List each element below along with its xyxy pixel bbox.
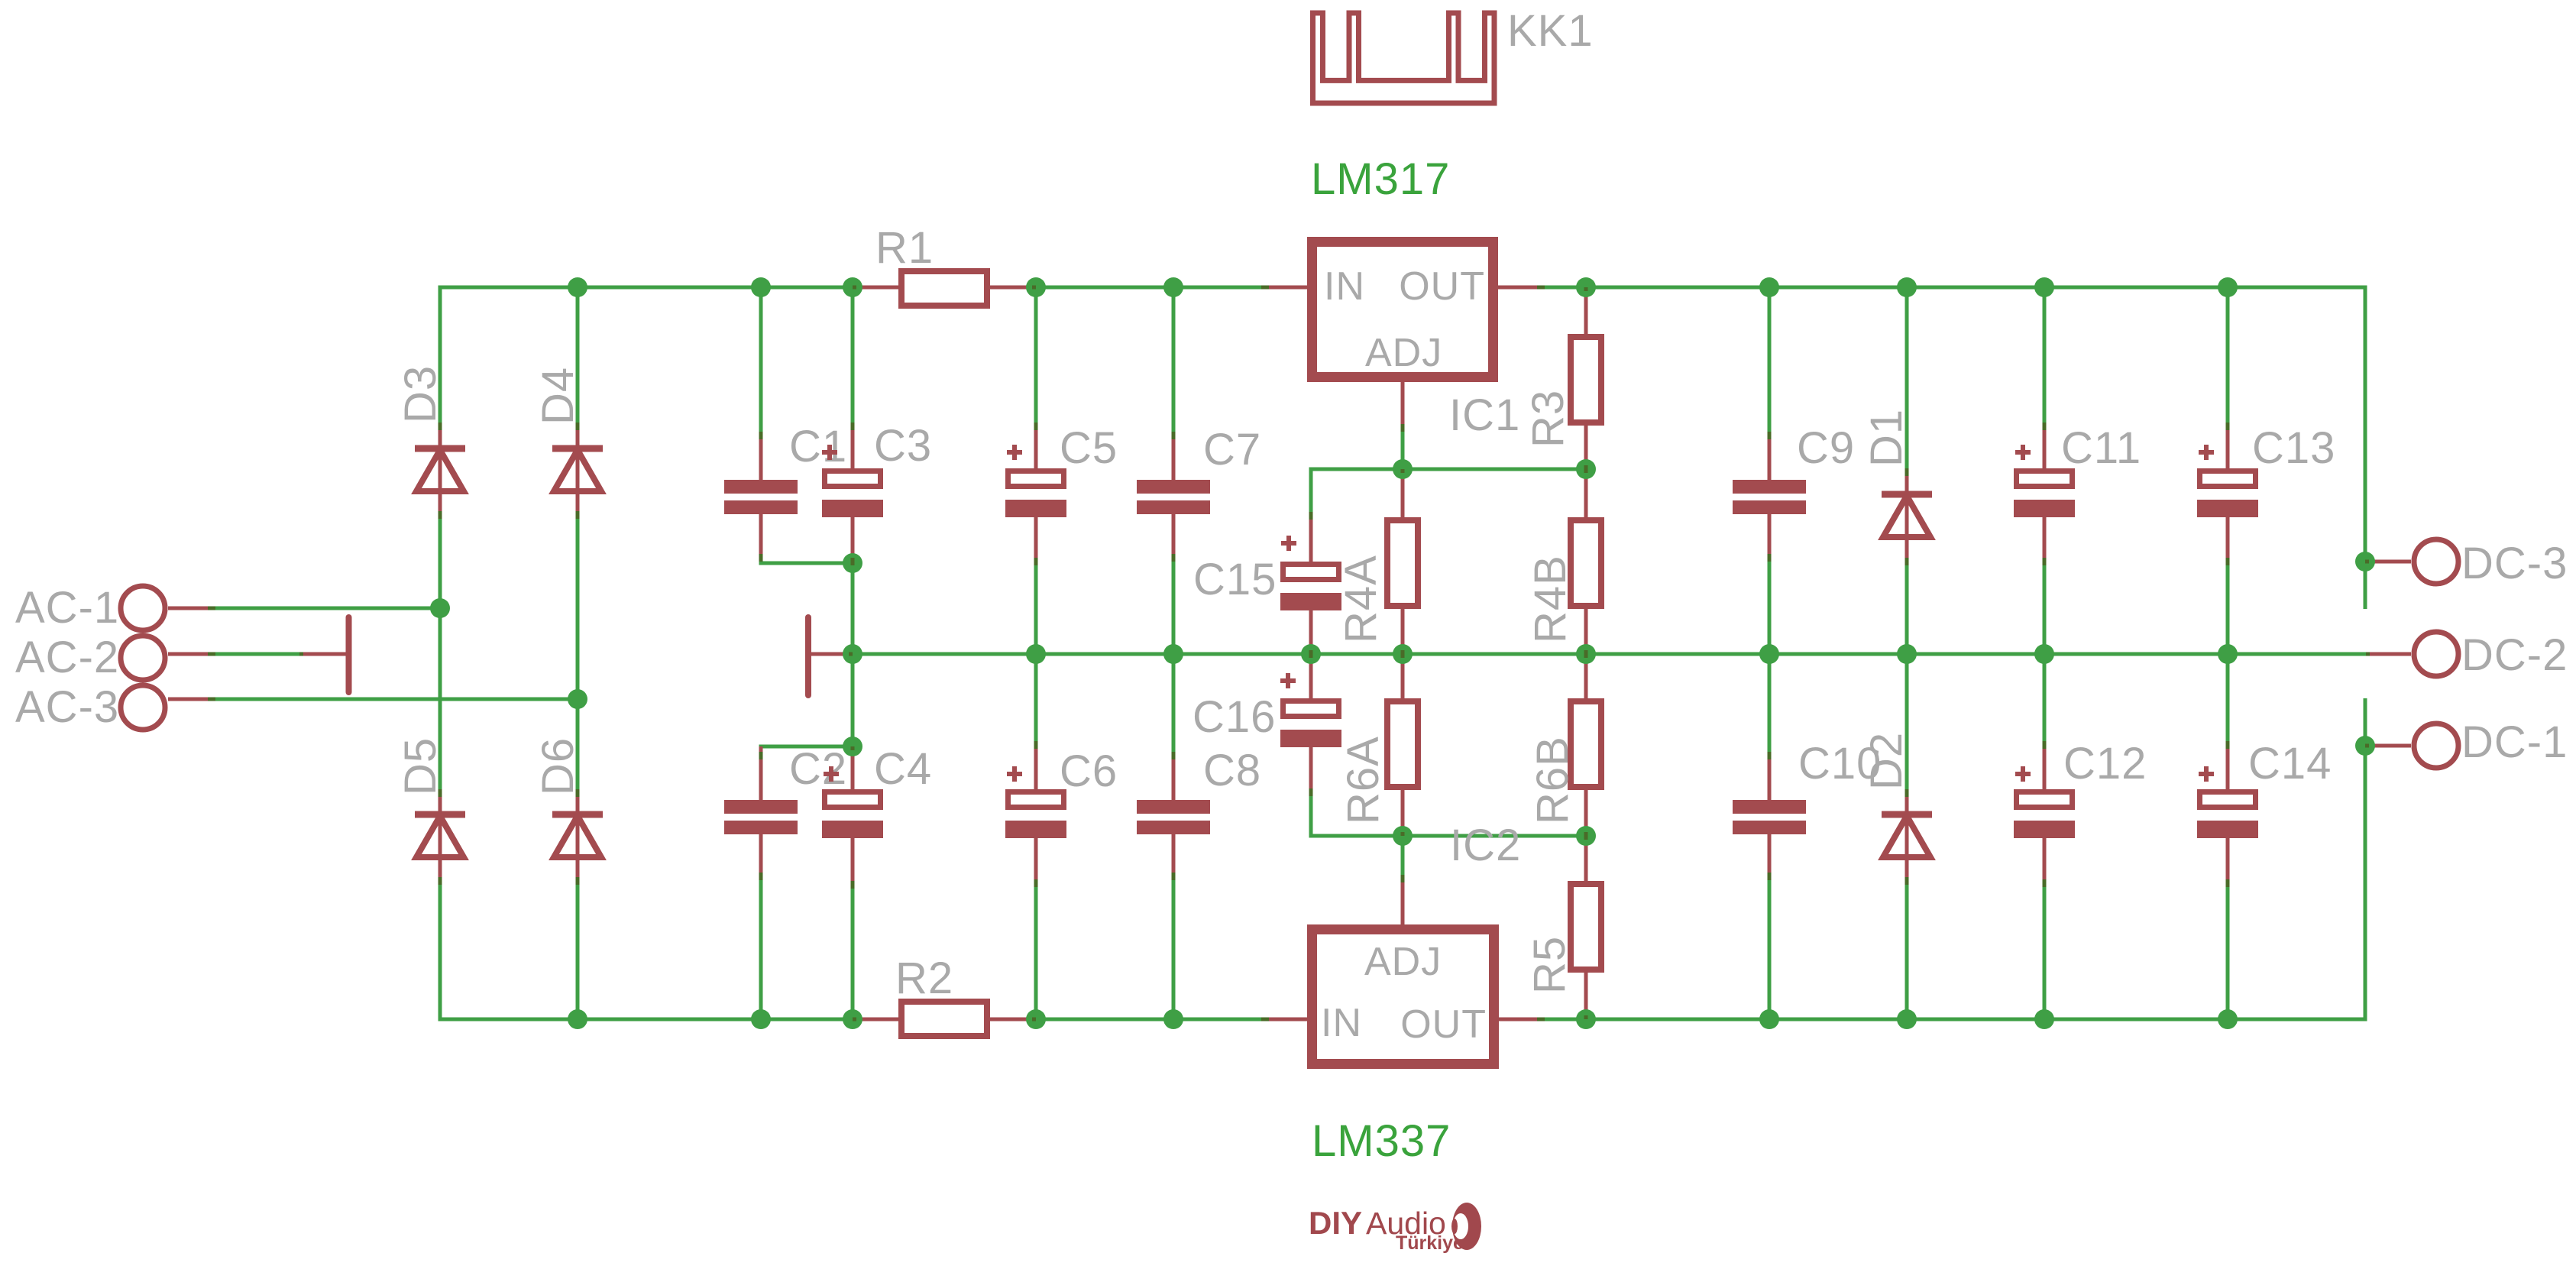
capacitor C1 bbox=[759, 435, 763, 480]
svg-text:C15: C15 bbox=[1193, 555, 1277, 604]
svg-text:AC-3: AC-3 bbox=[15, 682, 119, 732]
svg-text:IN: IN bbox=[1324, 264, 1365, 309]
wire C6 bottom bbox=[1034, 885, 1038, 1019]
svg-text:R4B: R4B bbox=[1526, 555, 1575, 643]
wire C1 top bbox=[759, 287, 763, 435]
pin end bar center rail bbox=[805, 617, 811, 695]
svg-text:C5: C5 bbox=[1060, 423, 1118, 473]
wire C8 bottom bbox=[1172, 876, 1176, 1019]
wire D2 anode bbox=[1905, 881, 1909, 1019]
wire D1 anode bbox=[1905, 562, 1909, 654]
connector pin AC-2 bbox=[121, 636, 165, 680]
connector pin AC-3 bbox=[121, 685, 165, 730]
wire C2 bottom bbox=[759, 876, 763, 1019]
wire C2 top joining link bbox=[761, 746, 853, 748]
svg-text:C10: C10 bbox=[1798, 739, 1882, 788]
wire C7 bottom bbox=[1172, 556, 1176, 654]
wire AC-2 net bbox=[212, 652, 303, 656]
resistor R1 bbox=[853, 286, 898, 290]
regulator IC2 LM337 bbox=[1265, 1018, 1308, 1022]
svg-text:C4: C4 bbox=[874, 744, 932, 794]
wire C13 top bbox=[2226, 287, 2230, 426]
svg-text:C7: C7 bbox=[1203, 425, 1261, 474]
wire C5 bottom bbox=[1034, 562, 1038, 654]
resistor R6A bbox=[1401, 654, 1405, 698]
wire C13 bottom bbox=[2226, 562, 2230, 654]
capacitor C3 bbox=[851, 426, 855, 468]
wire center rail to node C2C4 bbox=[851, 654, 855, 746]
wire bottom rail middle segment bbox=[1036, 1018, 1265, 1022]
svg-text:C13: C13 bbox=[2252, 423, 2335, 473]
svg-text:C9: C9 bbox=[1797, 423, 1855, 473]
wire top rail middle segment bbox=[1036, 286, 1265, 290]
svg-text:D5: D5 bbox=[396, 737, 445, 795]
node ADJ IC2 left bbox=[1393, 826, 1413, 846]
capacitor C10 bbox=[1768, 756, 1772, 800]
svg-text:IC1: IC1 bbox=[1449, 390, 1520, 440]
capacitor C6 bbox=[1034, 745, 1038, 789]
svg-text:R3: R3 bbox=[1523, 390, 1573, 448]
resistor R5 bbox=[1584, 836, 1588, 881]
svg-text:LM337: LM337 bbox=[1312, 1116, 1451, 1166]
capacitor C13 bbox=[2226, 426, 2230, 468]
capacitor C4 bbox=[851, 746, 855, 789]
node ADJ IC1 right bbox=[1576, 459, 1596, 479]
capacitor C8 bbox=[1172, 756, 1176, 800]
svg-text:R6A: R6A bbox=[1338, 736, 1388, 824]
svg-text:R1: R1 bbox=[875, 223, 934, 273]
node junctions bottom rail bbox=[568, 1009, 587, 1029]
svg-text:R4A: R4A bbox=[1336, 555, 1386, 643]
wire C11 top bbox=[2043, 287, 2047, 426]
svg-text:C16: C16 bbox=[1193, 692, 1276, 742]
node ADJ IC1 left bbox=[1393, 459, 1413, 479]
diode D5 bbox=[439, 792, 442, 882]
svg-text:IC2: IC2 bbox=[1450, 821, 1521, 870]
wire top rail left segment bbox=[440, 287, 853, 608]
svg-text:DC-3: DC-3 bbox=[2461, 539, 2568, 588]
resistor R6B bbox=[1584, 654, 1588, 698]
wire C11 bottom bbox=[2043, 562, 2047, 654]
wire ADJ IC2 net bbox=[1311, 792, 1586, 836]
wire D4 anode to AC-3 node bbox=[576, 515, 580, 699]
node C1 C3 join bbox=[843, 553, 862, 573]
node ADJ IC2 right bbox=[1576, 826, 1596, 846]
wire D3 anode to AC-1 node bbox=[439, 515, 442, 608]
wire C6 top bbox=[1034, 654, 1038, 745]
wire C1 bottom joining link bbox=[761, 562, 853, 563]
wire C14 bottom bbox=[2226, 885, 2230, 1019]
wire C3 top bbox=[851, 287, 855, 426]
svg-text:DC-1: DC-1 bbox=[2461, 717, 2568, 767]
svg-text:C1: C1 bbox=[789, 422, 847, 471]
wire C4 bottom bbox=[851, 885, 855, 1019]
capacitor C7 bbox=[1172, 435, 1176, 480]
node junctions center rail bbox=[843, 644, 862, 664]
capacitor C12 bbox=[2043, 745, 2047, 789]
capacitor C5 bbox=[1034, 426, 1038, 468]
svg-text:ADJ: ADJ bbox=[1365, 331, 1442, 375]
wire C12 top bbox=[2043, 654, 2047, 745]
svg-text:DIY: DIY bbox=[1309, 1205, 1362, 1241]
wire bottom rail right segment bbox=[1541, 698, 2365, 1019]
svg-text:KK1: KK1 bbox=[1507, 6, 1594, 56]
diode D6 bbox=[576, 792, 580, 882]
connector pin DC-2 bbox=[2366, 652, 2411, 656]
diode D3 bbox=[439, 426, 442, 516]
wire top rail right segment bbox=[1541, 287, 2365, 609]
logo DIYAudio Turkiye bbox=[1309, 1203, 1481, 1254]
wire C5 top bbox=[1034, 287, 1038, 426]
wire AC-3 net bbox=[212, 698, 578, 701]
svg-text:C14: C14 bbox=[2248, 739, 2332, 788]
wire D6 anode bbox=[576, 881, 580, 1019]
svg-text:C2: C2 bbox=[789, 744, 847, 794]
heatsink KK1 bbox=[1313, 13, 1495, 103]
wire C12 bottom bbox=[2043, 885, 2047, 1019]
svg-text:C11: C11 bbox=[2061, 423, 2141, 473]
resistor R4B bbox=[1584, 469, 1588, 517]
capacitor C15 bbox=[1309, 516, 1313, 562]
wire C7 top bbox=[1172, 287, 1176, 435]
capacitor C14 bbox=[2226, 745, 2230, 789]
diode D2 bbox=[1905, 792, 1909, 882]
resistor R4A bbox=[1401, 469, 1405, 517]
wire bottom rail left segment bbox=[440, 882, 853, 1019]
wire C14 top bbox=[2226, 654, 2230, 745]
diode D1 bbox=[1905, 471, 1909, 562]
diode D4 bbox=[576, 426, 580, 516]
svg-text:D6: D6 bbox=[533, 737, 583, 795]
connector pin DC-1 bbox=[2365, 744, 2411, 748]
node AC-1 / D3 D5 bbox=[430, 598, 450, 618]
wire C9 bottom bbox=[1768, 556, 1772, 654]
regulator IC1 LM317 bbox=[1265, 286, 1308, 290]
svg-text:AC-2: AC-2 bbox=[15, 633, 119, 682]
svg-text:LM317: LM317 bbox=[1311, 154, 1450, 204]
wire D6 cathode from AC-3 node bbox=[576, 699, 580, 793]
wire D2 cathode bbox=[1905, 654, 1909, 793]
wire AC-1 net bbox=[212, 607, 440, 610]
svg-text:C8: C8 bbox=[1203, 746, 1261, 795]
capacitor C9 bbox=[1768, 435, 1772, 480]
svg-text:R6B: R6B bbox=[1528, 736, 1578, 824]
wire overlap marks bbox=[851, 423, 855, 430]
svg-text:IN: IN bbox=[1321, 1001, 1362, 1045]
wire center rail bbox=[853, 652, 2366, 656]
wire D5 anode bbox=[439, 881, 442, 1019]
node junctions top rail bbox=[568, 277, 587, 297]
wire D3 cathode bbox=[439, 287, 442, 426]
svg-text:R5: R5 bbox=[1525, 936, 1574, 994]
resistor R3 bbox=[1584, 287, 1588, 334]
svg-text:C6: C6 bbox=[1060, 746, 1118, 796]
svg-text:D1: D1 bbox=[1862, 409, 1911, 467]
resistor R2 bbox=[853, 1018, 898, 1022]
wire D4 cathode bbox=[576, 287, 580, 426]
capacitor C11 bbox=[2043, 426, 2047, 468]
pin end bar AC-2 bbox=[346, 617, 352, 692]
wire C10 top bbox=[1768, 654, 1772, 756]
svg-text:OUT: OUT bbox=[1399, 264, 1485, 309]
connector pin AC-1 bbox=[121, 586, 165, 630]
wire D1 cathode bbox=[1905, 287, 1909, 472]
node AC-3 / D4 D6 bbox=[568, 689, 587, 709]
svg-text:D3: D3 bbox=[396, 365, 445, 423]
wire C10 bottom bbox=[1768, 876, 1772, 1019]
node DC-3 bbox=[2355, 552, 2375, 571]
wire C8 top bbox=[1172, 654, 1176, 756]
svg-text:C12: C12 bbox=[2063, 739, 2147, 788]
wire ADJ IC1 net bbox=[1311, 469, 1586, 516]
capacitor C2 bbox=[759, 746, 763, 800]
svg-text:DC-2: DC-2 bbox=[2461, 630, 2568, 680]
wire C9 top bbox=[1768, 287, 1772, 435]
svg-text:OUT: OUT bbox=[1400, 1002, 1487, 1047]
node DC-1 bbox=[2355, 736, 2375, 756]
svg-text:C3: C3 bbox=[874, 421, 932, 471]
wire node C1C3 to center rail bbox=[851, 563, 855, 654]
connector pin DC-3 bbox=[2365, 560, 2411, 564]
svg-text:D4: D4 bbox=[533, 367, 583, 425]
svg-text:ADJ: ADJ bbox=[1364, 940, 1442, 984]
wire D5 cathode from AC-1 node bbox=[439, 608, 442, 793]
capacitor C16 bbox=[1309, 654, 1313, 698]
svg-text:AC-1: AC-1 bbox=[15, 583, 119, 633]
svg-text:R2: R2 bbox=[895, 954, 953, 1003]
node C2 C4 join bbox=[843, 737, 862, 756]
